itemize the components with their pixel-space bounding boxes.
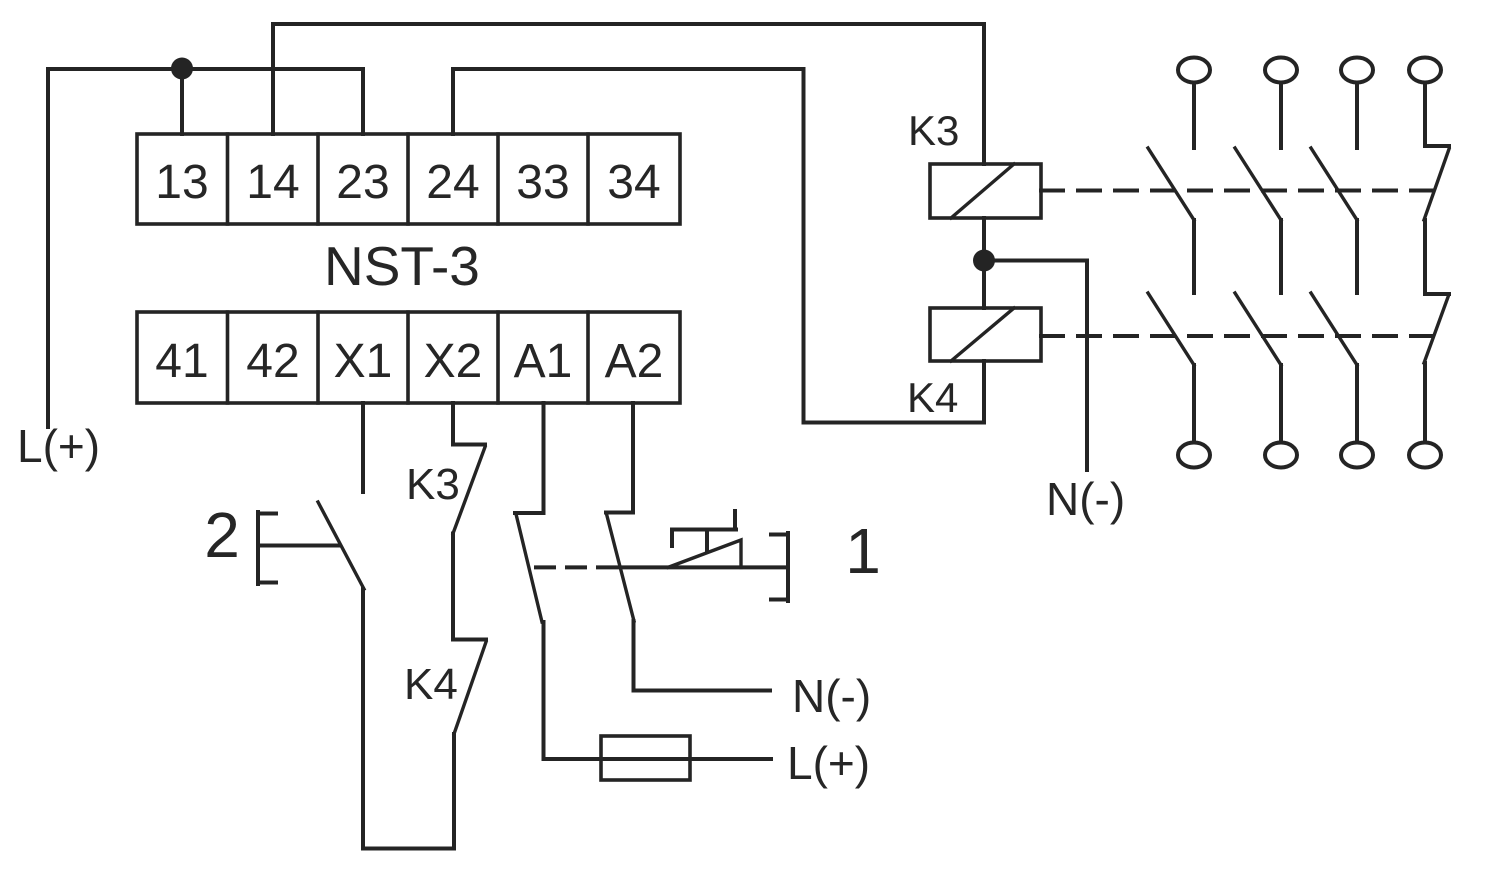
svg-text:K3: K3 <box>406 460 460 509</box>
contact K3 NC blade <box>453 447 485 534</box>
svg-text:41: 41 <box>155 335 208 388</box>
contact column 1 wires and blades <box>1192 84 1196 148</box>
wire stub into terminal 23 <box>361 69 365 134</box>
svg-text:14: 14 <box>246 156 299 209</box>
contact column 4 (NC) top terminal circle <box>1409 58 1441 83</box>
svg-text:X1: X1 <box>334 335 393 388</box>
e-stop main bar to bracket <box>598 565 788 569</box>
switch 2 blade <box>318 502 364 589</box>
e-stop contact 1 blade <box>516 514 542 622</box>
junction dot between K3 and K4 coils <box>973 250 995 272</box>
wire A1 stub down <box>542 403 546 512</box>
svg-text:L(+): L(+) <box>17 420 100 472</box>
svg-text:K4: K4 <box>404 660 458 709</box>
wire K3 coil bottom to K4 coil top <box>982 218 986 308</box>
svg-text:N(-): N(-) <box>792 670 871 722</box>
terminal block row 1 outline <box>137 134 680 224</box>
svg-text:42: 42 <box>246 335 299 388</box>
svg-text:X2: X2 <box>424 335 483 388</box>
e-stop button head <box>672 511 736 551</box>
e-stop contact 2 hook <box>606 511 633 515</box>
e-stop mechanical link (dashed) <box>536 565 598 569</box>
e-stop bracket <box>771 533 788 601</box>
wire X2 stub down <box>451 403 455 445</box>
relay coil K3 <box>930 164 1041 218</box>
relay coil K4 slash <box>951 308 1014 361</box>
junction dot at terminal 13 <box>171 58 193 80</box>
relay coil K3 slash <box>951 164 1014 218</box>
fuse F1 <box>601 736 690 780</box>
wire L(+) horizontal to 13 and 23 <box>48 67 363 71</box>
svg-text:A2: A2 <box>605 335 664 388</box>
wire junction to N(-) drop <box>984 261 1087 471</box>
wire K4 NC contact down <box>452 734 456 849</box>
contact column 3 wires and blades <box>1355 84 1359 148</box>
contact column 1 top terminal circle <box>1178 58 1210 83</box>
svg-text:24: 24 <box>426 156 479 209</box>
contact column 2 wires and blades <box>1279 84 1283 148</box>
svg-text:1: 1 <box>845 515 881 587</box>
wire X1 stub down <box>361 403 365 492</box>
contact K3 NC hook <box>453 443 485 447</box>
wire A2 down to N(-) <box>634 621 771 691</box>
svg-text:L(+): L(+) <box>787 737 870 789</box>
svg-text:13: 13 <box>155 156 208 209</box>
terminal block row 1 dividers <box>228 134 589 224</box>
e-stop button blade <box>668 540 741 567</box>
contact column 2 top terminal circle <box>1265 58 1297 83</box>
wire stub into terminal 13 <box>180 69 184 134</box>
e-stop contact 1 hook <box>515 511 544 515</box>
contact column 2 bottom terminal circle <box>1265 443 1297 468</box>
wire L(+) riser <box>46 69 50 427</box>
svg-text:A1: A1 <box>514 335 573 388</box>
contact column 3 bottom terminal circle <box>1341 443 1373 468</box>
svg-text:N(-): N(-) <box>1046 473 1125 525</box>
e-stop contact 2 blade <box>607 514 635 621</box>
terminal block row 2 outline <box>137 312 680 403</box>
svg-text:K4: K4 <box>907 374 958 421</box>
contact column 3 top terminal circle <box>1341 58 1373 83</box>
contact K4 NC blade <box>454 642 486 734</box>
wire A1 down to fuse line <box>542 622 546 759</box>
wire fuse line to L(+) <box>544 757 772 761</box>
wire switch 2 down and across to K4 contact <box>363 589 454 849</box>
contact column 4 bottom terminal circle <box>1409 443 1441 468</box>
svg-text:23: 23 <box>336 156 389 209</box>
wire between K3 and K4 NC contacts <box>451 534 455 639</box>
terminal block row 2 dividers <box>228 312 589 403</box>
mechanical link K4 coil to contacts (dashed) <box>1041 334 1440 338</box>
svg-text:K3: K3 <box>908 107 959 154</box>
contact column 4 wires, hooks and blades <box>1423 84 1427 146</box>
svg-text:33: 33 <box>516 156 569 209</box>
svg-text:NST-3: NST-3 <box>324 235 480 297</box>
svg-text:34: 34 <box>607 156 660 209</box>
svg-text:2: 2 <box>204 499 240 571</box>
contact K4 NC hook <box>453 638 486 642</box>
wire A2 stub down <box>631 403 635 512</box>
relay coil K4 <box>930 308 1041 361</box>
switch 2 actuator bracket <box>258 512 339 584</box>
wire terminal 14 to K3 coil top <box>273 24 984 164</box>
mechanical link K3 coil to contacts (dashed) <box>1041 189 1440 193</box>
contact column 1 bottom terminal circle <box>1178 443 1210 468</box>
wire terminal 24 to K4 coil bottom <box>453 69 984 423</box>
